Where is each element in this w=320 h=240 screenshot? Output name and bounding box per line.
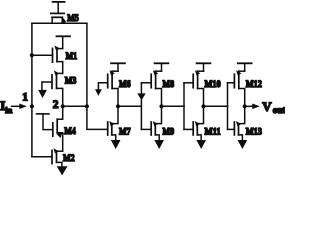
- wire stage3 drain to stage4 gates: [204, 105, 228, 107]
- transistor M12: [234, 70, 262, 106]
- svg-text:2: 2: [53, 99, 59, 111]
- transistor M2: [32, 148, 75, 167]
- transistor M13: [234, 106, 262, 141]
- svg-text:M4: M4: [64, 126, 76, 137]
- ground current arrow below M2: [57, 166, 68, 175]
- VDD rail for M6: [111, 63, 125, 71]
- VDD rail for M8: [155, 63, 169, 71]
- wire top horizontal from node 1 to M5: [32, 22, 87, 24]
- wire node 2 tap down to M7 gate: [87, 106, 108, 129]
- node dot M1 gate on node-1 wire: [30, 53, 34, 57]
- node dot drain stage 4: [243, 104, 247, 108]
- svg-text:M12: M12: [246, 79, 262, 90]
- svg-text:M9: M9: [163, 126, 175, 137]
- svg-text:V: V: [262, 99, 272, 114]
- wire stage2 gate vertical: [141, 83, 151, 130]
- transistor M9: [151, 106, 174, 141]
- transistor M5: [51, 13, 79, 24]
- output arrow and V_out: [245, 99, 286, 115]
- svg-text:M7: M7: [119, 126, 131, 137]
- node dot bus to M7 tap: [85, 104, 89, 108]
- VDD rail for M10: [197, 63, 211, 71]
- transistor M4: [43, 106, 76, 151]
- svg-text:M11: M11: [205, 126, 221, 137]
- node dot I_in junction: [30, 104, 34, 108]
- transistor M8: [151, 70, 174, 106]
- svg-text:M6: M6: [119, 79, 131, 90]
- svg-text:1: 1: [22, 92, 28, 104]
- VDD rail for M1: [57, 36, 71, 48]
- svg-text:M3: M3: [65, 76, 77, 87]
- VDD rail for M12: [238, 63, 252, 71]
- svg-text:M1: M1: [66, 51, 78, 62]
- ground current arrow below M13: [238, 140, 248, 149]
- wire right vertical of input mirror block: [86, 23, 88, 106]
- wire node 2 bus segment: [63, 105, 87, 107]
- transistor M11: [193, 106, 221, 141]
- node dot drain stage 2: [159, 104, 163, 108]
- M6 gate wire with bias arrow: [95, 83, 108, 96]
- node dot 2: [61, 104, 65, 108]
- svg-text:M13: M13: [246, 126, 262, 137]
- wire node 1 left vertical: [31, 23, 33, 156]
- transistor M1: [32, 45, 77, 73]
- svg-text:M2: M2: [63, 153, 75, 164]
- bias tee bar below node 2 (M4 gate): [37, 113, 50, 115]
- ground current arrow below M11: [196, 140, 206, 149]
- svg-text:M5: M5: [67, 13, 79, 24]
- svg-text:out: out: [273, 105, 285, 115]
- transistor M6: [108, 70, 131, 106]
- input current I_in: [0, 98, 27, 115]
- VDD rail for M5: [53, 2, 65, 14]
- wire stage2 drain to stage3 gates: [162, 105, 185, 107]
- wire stage4 gate vertical: [228, 83, 235, 130]
- wire stage3 gate vertical: [184, 83, 193, 130]
- current arrow on stage2 gate wire: [137, 93, 145, 100]
- transistor M7: [108, 106, 131, 141]
- ground current arrow below M7: [111, 140, 121, 149]
- transistor M10: [193, 70, 221, 106]
- bias current arrow at node 2 (M3 gate): [38, 90, 47, 98]
- node dot drain stage 1: [116, 104, 120, 108]
- wire stage1 drain to stage2 gates: [118, 105, 141, 107]
- ground current arrow below M9: [154, 140, 164, 149]
- svg-text:M10: M10: [205, 79, 221, 90]
- svg-text:M8: M8: [163, 79, 175, 90]
- transistor M3: [42, 70, 77, 106]
- node dot drain stage 3: [201, 104, 205, 108]
